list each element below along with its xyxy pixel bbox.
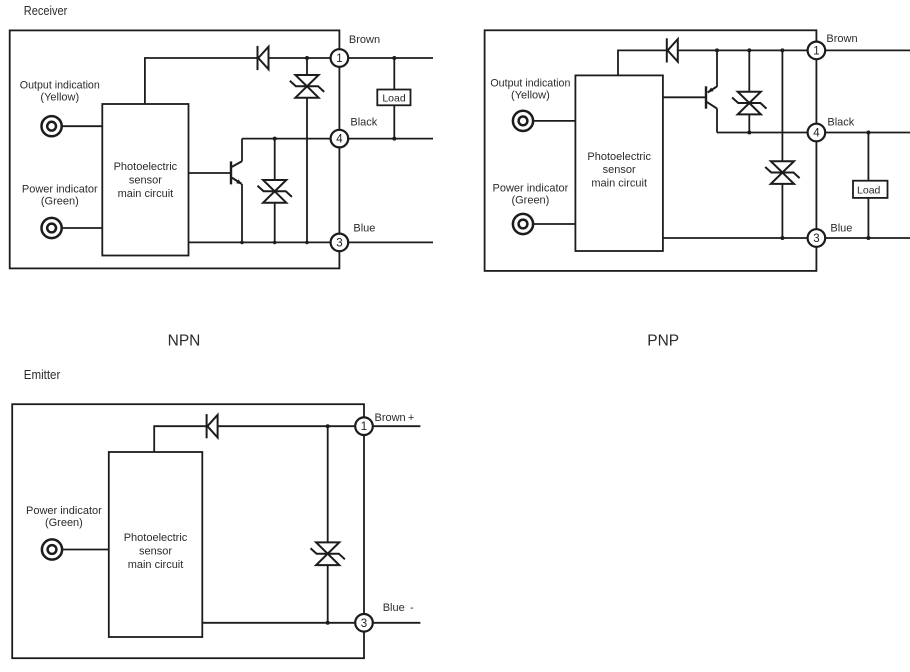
node junction on black row <box>273 137 277 141</box>
diode D3 <box>207 414 218 438</box>
wire black to load <box>867 133 869 181</box>
node zener Z4 junction on brown row <box>780 48 784 52</box>
terminal 1 <box>355 417 373 435</box>
wire node to zener Z2 <box>274 139 276 180</box>
zener Z2 (surge absorber) <box>258 180 292 203</box>
zener Z4 (surge absorber) <box>765 161 799 184</box>
svg-text:Output indication: Output indication <box>490 77 570 89</box>
diode D2 <box>667 38 678 62</box>
enclosure box (emitter) <box>12 404 364 658</box>
node zener Z4 junction on blue row <box>780 236 784 240</box>
wire LED green to sensor block <box>63 549 109 551</box>
wire brown external <box>348 57 433 59</box>
wire blue row <box>202 622 355 624</box>
svg-text:Blue: Blue <box>353 222 375 234</box>
terminal 1 <box>808 42 826 60</box>
svg-text:Photoelectric: Photoelectric <box>124 532 188 544</box>
svg-text:NPN: NPN <box>168 332 201 349</box>
node load-black junction <box>866 131 870 135</box>
node junction on brown row <box>305 56 309 60</box>
svg-text:main circuit: main circuit <box>128 559 184 571</box>
svg-text:main circuit: main circuit <box>591 178 647 190</box>
wire collector down to black row <box>716 108 718 132</box>
node load-blue junction <box>866 236 870 240</box>
wire zener Z1 down to blue row <box>306 98 308 243</box>
node load-brown junction <box>392 56 396 60</box>
wire sensor top to diode row <box>154 426 206 452</box>
svg-text:Brown: Brown <box>826 33 857 45</box>
wire load to black <box>393 105 395 138</box>
diode D1 <box>258 46 269 70</box>
svg-text:Brown +: Brown + <box>375 412 415 424</box>
label Power indicator (Green) <box>492 183 568 207</box>
LED output indication (yellow) <box>42 116 62 136</box>
svg-text:(Green): (Green) <box>511 195 549 207</box>
enclosure box (receiver PNP) <box>485 30 817 271</box>
node zener1-blue junction <box>305 241 309 245</box>
svg-text:(Green): (Green) <box>41 196 79 208</box>
node zener Z3 junction on black row <box>747 131 751 135</box>
terminal 3 <box>808 229 826 247</box>
load resistor <box>853 181 888 198</box>
svg-text:Emitter: Emitter <box>24 367 61 382</box>
svg-text:(Yellow): (Yellow) <box>40 91 79 103</box>
wire diode to terminal 1 <box>269 57 331 59</box>
svg-text:sensor: sensor <box>139 545 172 557</box>
wire brown node to zener Z5 <box>327 426 329 542</box>
wire zener Z5 to blue row <box>327 565 329 623</box>
svg-text:4: 4 <box>813 128 820 140</box>
terminal 3 <box>355 614 373 632</box>
node load-black junction <box>392 137 396 141</box>
svg-text:PNP: PNP <box>647 332 679 349</box>
svg-text:Black: Black <box>350 117 377 129</box>
svg-text:1: 1 <box>336 53 342 65</box>
wire node to zener Z1 <box>306 58 308 75</box>
wire blue row <box>663 237 808 239</box>
terminal 4 <box>808 124 826 142</box>
wire sensor to transistor base <box>663 96 705 98</box>
wire blue row <box>189 241 331 243</box>
svg-text:Output indication: Output indication <box>20 79 100 91</box>
sensor block U1 <box>102 104 188 256</box>
label Photoelectric sensor main circuit <box>587 151 651 190</box>
wire sensor top to diode row <box>145 58 257 104</box>
node zener2-blue junction <box>273 241 277 245</box>
terminal 4 <box>331 130 349 148</box>
svg-text:Load: Load <box>382 92 406 104</box>
transistor Q2 PNP <box>706 86 717 108</box>
wire brown node to zener Z3 <box>748 50 750 91</box>
svg-text:3: 3 <box>361 618 367 630</box>
svg-text:-: - <box>410 602 414 614</box>
wire emitter from brown row <box>716 50 718 86</box>
wire LED green to sensor block <box>534 223 576 225</box>
wire black external <box>348 138 433 140</box>
wire zener Z2 to blue row <box>274 203 276 243</box>
wire sensor top to diode row <box>618 50 666 75</box>
wire brown node to zener Z4 (crosses black row) <box>781 50 783 161</box>
svg-text:Load: Load <box>857 185 881 197</box>
label Blue - <box>383 602 414 614</box>
svg-text:(Green): (Green) <box>45 517 83 529</box>
wire zener Z4 to blue row <box>781 184 783 238</box>
svg-text:(Yellow): (Yellow) <box>511 89 550 101</box>
wire black external <box>825 132 910 134</box>
sensor block U3 <box>109 452 203 637</box>
svg-text:sensor: sensor <box>129 174 162 186</box>
zener Z3 (surge absorber) <box>732 92 766 115</box>
svg-text:Brown: Brown <box>349 34 380 46</box>
terminal 1 <box>331 49 349 67</box>
svg-text:Black: Black <box>827 117 854 129</box>
wire blue external <box>373 622 421 624</box>
wire load to blue <box>867 198 869 238</box>
wire brown to load <box>393 58 395 90</box>
svg-text:1: 1 <box>361 421 367 433</box>
svg-text:Power indicator: Power indicator <box>26 505 102 517</box>
wire brown external <box>373 425 421 427</box>
svg-text:main circuit: main circuit <box>118 188 174 200</box>
zener Z5 (surge absorber) <box>311 542 345 565</box>
wire LED yellow to sensor block <box>534 120 576 122</box>
wire black row to terminal 4 <box>717 132 808 134</box>
label Photoelectric sensor main circuit <box>114 161 178 200</box>
svg-text:Power indicator: Power indicator <box>492 183 568 195</box>
wire black row to terminal 4 <box>242 138 331 140</box>
wire sensor to transistor base <box>189 172 231 174</box>
wire diode to terminal 1 <box>218 425 356 427</box>
label Output indication (Yellow) <box>490 77 570 101</box>
terminal 3 <box>331 234 349 252</box>
wire emitter down to blue row <box>241 184 243 243</box>
node zener junction on blue row <box>326 621 330 625</box>
enclosure box (receiver NPN) <box>10 30 340 268</box>
wire blue external <box>348 241 433 243</box>
wire diode to terminal 1 <box>678 49 808 51</box>
wire LED green to sensor block <box>62 227 102 229</box>
node zener junction on brown row <box>326 424 330 428</box>
node zener Z3 junction on brown row <box>747 48 751 52</box>
svg-text:Power indicator: Power indicator <box>22 184 98 196</box>
zener Z1 (surge absorber) <box>290 75 324 98</box>
svg-text:Receiver: Receiver <box>24 3 68 18</box>
LED power indicator (green) <box>42 539 62 559</box>
svg-text:Photoelectric: Photoelectric <box>114 161 178 173</box>
node emitter-blue junction <box>240 241 244 245</box>
sensor block U2 <box>575 75 663 251</box>
label Photoelectric sensor main circuit <box>124 532 188 571</box>
wire LED yellow to sensor block <box>62 125 102 127</box>
label Output indication (Yellow) <box>20 79 100 103</box>
node emitter junction on brown row <box>715 48 719 52</box>
LED power indicator (green) <box>42 218 62 238</box>
transistor Q1 NPN <box>231 161 242 184</box>
wire zener Z3 to black row <box>748 114 750 132</box>
wire brown external <box>825 49 910 51</box>
svg-text:3: 3 <box>813 233 819 245</box>
load resistor <box>377 90 410 106</box>
svg-text:1: 1 <box>813 45 819 57</box>
svg-text:Blue: Blue <box>830 222 852 234</box>
svg-text:Blue: Blue <box>383 602 405 614</box>
wire collector up to black row <box>241 139 243 162</box>
svg-text:4: 4 <box>336 134 343 146</box>
svg-text:sensor: sensor <box>603 164 636 176</box>
label Power indicator (Green) <box>26 505 102 529</box>
svg-text:Photoelectric: Photoelectric <box>587 151 651 163</box>
label Power indicator (Green) <box>22 184 98 208</box>
LED power indicator (green) <box>513 214 533 234</box>
LED output indication (yellow) <box>513 111 533 131</box>
svg-text:3: 3 <box>336 237 342 249</box>
wire blue external <box>825 237 910 239</box>
